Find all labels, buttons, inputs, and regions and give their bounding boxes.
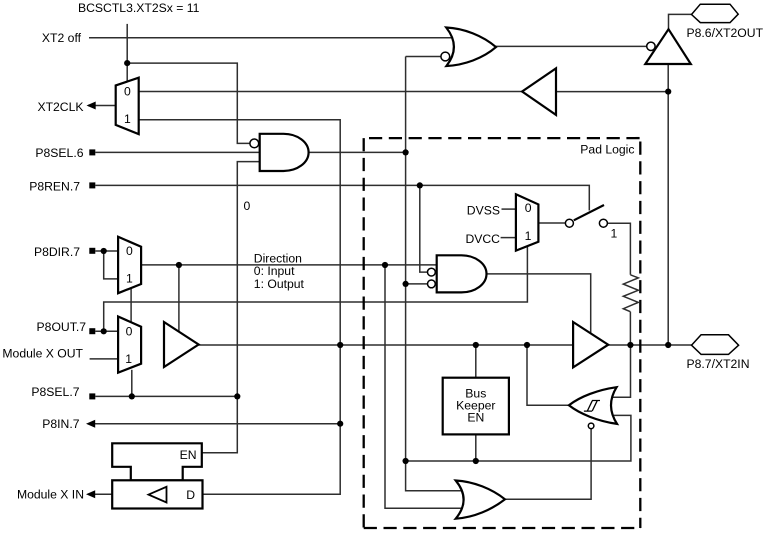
wire DVCC stub: [501, 237, 516, 239]
wire DVSS/DVCC mux output to switch: [538, 222, 565, 224]
wire P8SEL.7 to P8OUT mux select: [131, 370, 133, 397]
pad P8.6/XT2OUT: [692, 4, 739, 22]
wire output driver to P8.7 pad: [608, 344, 691, 346]
pad P8.7/XT2IN: [692, 335, 739, 355]
wire REN branch to AND2 upper bubble: [420, 185, 428, 272]
junction P8.7 pad node: [665, 342, 671, 348]
wire XT2CLK output: [88, 105, 116, 107]
svg-text:1: 1: [124, 112, 131, 126]
resistor R1 pullup/pulldown: [623, 275, 638, 312]
junction P8SEL.7 to mux select: [129, 393, 135, 399]
svg-text:P8OUT.7: P8OUT.7: [37, 320, 87, 334]
svg-text:1: Output: 1: Output: [254, 277, 305, 291]
latch U14 EN/D Module X IN: [112, 443, 202, 508]
junction P8REN.7 to AND bubble: [417, 182, 423, 188]
svg-text:0: 0: [126, 325, 133, 339]
wire schmitt upper input from pad node: [612, 345, 631, 397]
svg-text:0: 0: [244, 199, 251, 213]
wire OR1 output to XT2OUT driver bubble: [496, 45, 647, 47]
svg-text:1: 1: [126, 271, 133, 285]
wire Direction line to AND2 input 1: [141, 264, 437, 266]
svg-text:1: 1: [125, 352, 132, 366]
wire P8DIR.7 input: [95, 250, 118, 252]
svg-text:DVSS: DVSS: [467, 204, 500, 218]
junction Direction to OR2: [382, 262, 388, 268]
svg-text:P8REN.7: P8REN.7: [29, 179, 80, 193]
mux U2 P8DIR: [118, 237, 141, 293]
wire switch to resistor: [607, 223, 630, 275]
svg-text:P8DIR.7: P8DIR.7: [34, 245, 80, 259]
svg-text:0: 0: [126, 244, 133, 258]
junction P8DIR.7 fanout: [101, 248, 107, 254]
and-gate U5 XT2Sx decode: [250, 134, 309, 171]
wire inverter output to mux input 0: [139, 91, 556, 93]
svg-text:BCSCTL3.XT2Sx = 11: BCSCTL3.XT2Sx = 11: [78, 1, 200, 15]
buffer U13 XT2OUT pad driver: [645, 29, 691, 64]
junction pad line to schmitt output: [524, 342, 530, 348]
wire Direction branch to OR2 input 2: [385, 265, 462, 508]
svg-text:P8.7/XT2IN: P8.7/XT2IN: [687, 357, 750, 371]
or-gate U8 bus keeper control: [456, 481, 505, 519]
wire select through muxes: [130, 288, 132, 322]
wire OR2 output to schmitt bubble: [505, 429, 591, 500]
svg-text:EN: EN: [180, 448, 197, 462]
junction bus keeper line center: [473, 458, 479, 464]
junction XT2Sx select branch: [124, 60, 130, 66]
svg-text:XT2CLK: XT2CLK: [37, 100, 83, 114]
wire P8SEL.7 line: [95, 395, 237, 397]
wire bus keeper top vertical: [475, 345, 477, 378]
wire P8REN.7 line to switch: [95, 185, 589, 210]
svg-text:P8IN.7: P8IN.7: [42, 417, 79, 431]
buffer U10 Module X OUT (tri-state): [164, 322, 199, 367]
mux U1 XT2CLK: [116, 78, 139, 134]
wire P8IN.7 line: [88, 423, 340, 425]
svg-text:Module X IN: Module X IN: [17, 487, 84, 501]
port input square P8DIR.7: [89, 248, 95, 254]
wire bus keeper enable line: [406, 415, 631, 461]
port input square P8OUT.7: [89, 328, 95, 334]
wire XT2Sx branch to NAND bubble input: [127, 63, 249, 143]
arrow XT2CLK: [87, 102, 96, 110]
svg-text:Module X OUT: Module X OUT: [2, 347, 83, 361]
svg-text:0: 0: [525, 201, 532, 215]
wire branch to OR1 bubble: [406, 56, 441, 58]
wire resistor to pad node: [629, 312, 631, 345]
svg-text:1: 1: [525, 229, 532, 243]
port input square P8SEL.7: [89, 393, 95, 399]
svg-text:EN: EN: [467, 410, 484, 424]
switch S1 resistor enable: [565, 205, 617, 241]
wire schmitt output feedback: [527, 345, 569, 405]
schmitt-trigger U9 bus keeper (left pointing): [569, 387, 617, 429]
wire bus keeper bottom vertical: [475, 434, 477, 461]
port input square P8REN.7: [89, 182, 95, 188]
or-gate U7 XT2OUT enable: [441, 28, 496, 67]
wire mux input 1 from pad line vertical: [139, 120, 341, 495]
svg-text:Pad Logic: Pad Logic: [580, 143, 634, 157]
junction P8OUT.7 fanout: [101, 328, 107, 334]
wire P8SEL.6 to NAND input 2: [95, 151, 259, 153]
wire NAND output: [309, 151, 406, 153]
wire inverter input branch: [556, 91, 668, 93]
and-gate U6 pad logic resistor enable: [428, 255, 487, 292]
junction pad line to bus keeper box: [473, 342, 479, 348]
wire P8DIR.7 branch to mux input 1: [104, 251, 118, 279]
junction P8SEL.7 to NAND and latch EN: [234, 393, 240, 399]
wire latch EN input from P8SEL.7: [202, 396, 238, 452]
wire Module X IN output: [88, 493, 112, 495]
mux U4 DVSS/DVCC: [516, 194, 539, 250]
junction bus keeper line left: [403, 458, 409, 464]
junction XT2IN to inverter input: [665, 89, 671, 95]
buffer U11 output driver (tri-state): [573, 322, 608, 367]
junction NAND net to AND bubble: [403, 281, 409, 287]
wire Module X OUT input: [90, 358, 119, 360]
junction Direction to buffer enable: [176, 262, 182, 268]
wire XT2 off line: [89, 37, 453, 39]
junction NAND output net: [403, 149, 409, 155]
junction pad node to resistor: [627, 342, 633, 348]
svg-text:P8SEL.6: P8SEL.6: [35, 146, 83, 160]
Pad Logic dashed border: [364, 138, 641, 528]
svg-text:D: D: [186, 488, 195, 502]
arrow P8IN.7: [86, 420, 95, 428]
wire BCSCTL3.XT2Sx select vertical: [126, 24, 128, 82]
wire branch to AND2 lower bubble: [406, 283, 428, 285]
inverter U12 XT2 feedback: [522, 68, 556, 115]
wire P8.7 node right vertical: [667, 64, 669, 345]
wire NAND input 3 from P8SEL.7: [237, 162, 259, 397]
wire P8OUT.7 input: [95, 330, 118, 332]
junction P8IN.7 tap: [337, 421, 343, 427]
wire DVSS stub: [502, 208, 516, 210]
svg-text:1: 1: [611, 227, 618, 241]
svg-text:0: 0: [124, 85, 131, 99]
wire AND2 output to driver enable: [487, 274, 591, 333]
junction pad line to P8IN vertical: [337, 342, 343, 348]
wire Direction branch to output buffer enable: [178, 265, 180, 332]
box Bus Keeper EN: [443, 378, 509, 435]
mux U3 P8OUT: [118, 317, 141, 373]
svg-text:P8.6/XT2OUT: P8.6/XT2OUT: [687, 26, 763, 40]
svg-text:P8SEL.7: P8SEL.7: [31, 385, 79, 399]
svg-text:DVCC: DVCC: [465, 232, 500, 246]
wire NAND-output long vertical net: [406, 57, 463, 491]
wire XT2OUT driver apex to pad: [669, 14, 692, 29]
port input square P8SEL.6: [89, 149, 95, 155]
wire pad drive line buffer to output driver: [199, 344, 573, 346]
svg-text:XT2 off: XT2 off: [42, 31, 82, 45]
wire P8OUT.7 branch to DVSS/DVCC mux select: [104, 246, 528, 331]
arrow Module X IN: [86, 490, 95, 498]
